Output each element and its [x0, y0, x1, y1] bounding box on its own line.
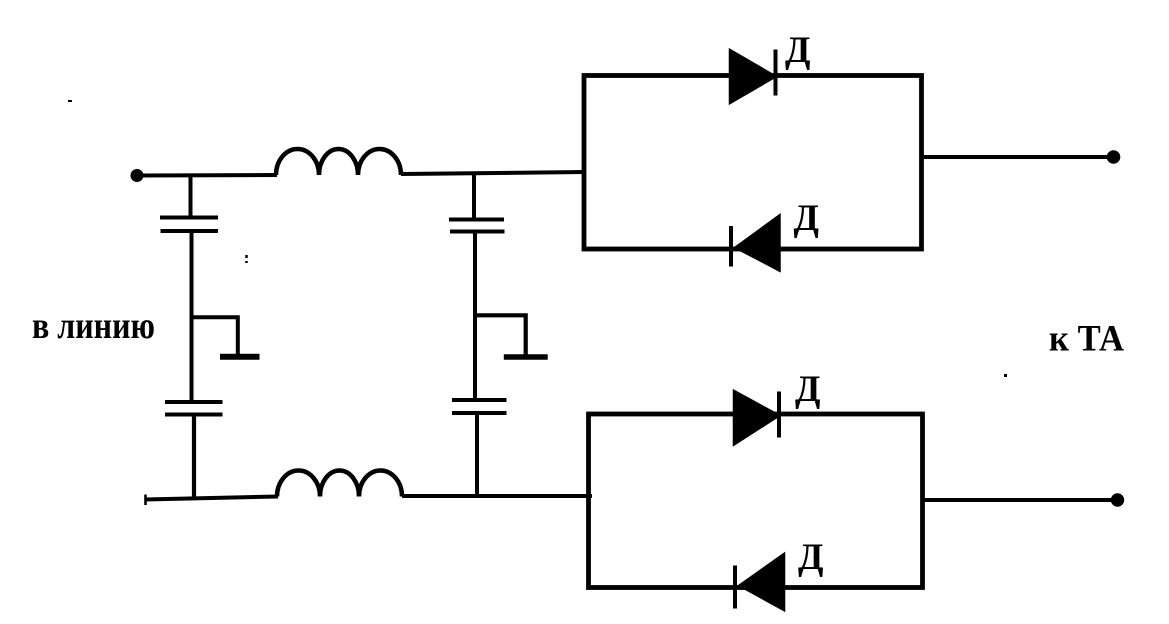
label Д (D4) [798, 537, 823, 578]
node: left shunt branch tap (top) [189, 175, 193, 219]
label: в линию (to the line) [32, 305, 155, 347]
speck (scan artifact, right side) [1004, 374, 1007, 377]
inductor L2 (bottom) [277, 471, 402, 497]
wire: right shunt vertical mid [473, 232, 477, 402]
wire: left shunt vertical to bottom wire [192, 415, 196, 501]
label: к ТА (to telephone set) [1049, 319, 1124, 360]
inductor L1 (top) [276, 149, 401, 175]
terminal dot: output bottom right [1111, 493, 1124, 506]
arrester K2 (right branch hook) [475, 315, 548, 357]
wire: bottom from left end to inductor L2 [145, 497, 278, 500]
terminal dot: line input (top left) [131, 169, 144, 182]
capacitor C2 (lower left shunt) [165, 402, 223, 415]
wire: bottom from L2 to diode block 2 [402, 494, 592, 498]
capacitor C4 (lower right shunt) [452, 400, 507, 413]
svg-text:Д: Д [794, 198, 819, 239]
svg-text:в линию: в линию [32, 305, 155, 347]
label Д (D1) [785, 30, 810, 71]
wire: top input from terminal to inductor L1 [137, 173, 277, 178]
terminal dot: output top right [1107, 150, 1121, 164]
label Д (D3) [795, 369, 820, 410]
wire: output of block 1 [922, 155, 1109, 159]
diode D1 (top of block 1, pointing right) [730, 50, 776, 104]
svg-text:Д: Д [785, 30, 810, 71]
capacitor C3 (upper right shunt) [449, 220, 505, 232]
wire: top from L1 to diode block 1 [401, 172, 585, 174]
diode block 2 frame (bottom rectangle) [589, 414, 923, 588]
diode block 1 frame (top rectangle) [584, 76, 922, 250]
label Д (D2) [794, 198, 819, 239]
diode D4 (bottom of block 2, pointing left) [735, 554, 784, 610]
diode D3 (top of block 2, pointing right) [734, 391, 779, 445]
svg-text:Д: Д [798, 537, 823, 578]
node: right shunt branch tap (top) [472, 173, 476, 221]
wire: output of block 2 [923, 498, 1113, 502]
speck (scan artifact, near C1) [245, 255, 248, 263]
svg-text:Д: Д [795, 369, 820, 410]
wire: left shunt vertical mid [190, 231, 194, 403]
wire end tick (bottom left) [144, 495, 147, 506]
capacitor C1 (upper left shunt) [160, 218, 218, 232]
svg-text:к ТА: к ТА [1049, 319, 1124, 360]
speck (scan artifact, upper left) [68, 100, 72, 102]
diode D2 (bottom of block 1, pointing left) [731, 216, 780, 271]
wire: right shunt vertical to bottom wire [475, 413, 479, 498]
arrester K1 (left branch hook) [192, 317, 260, 357]
